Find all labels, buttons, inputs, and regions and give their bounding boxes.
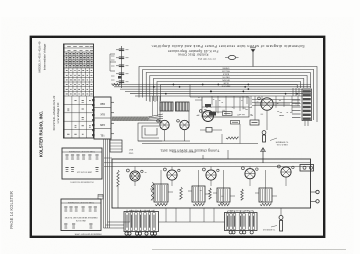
svg-text:PAGE 14 KOLSTER: PAGE 14 KOLSTER xyxy=(9,191,14,229)
